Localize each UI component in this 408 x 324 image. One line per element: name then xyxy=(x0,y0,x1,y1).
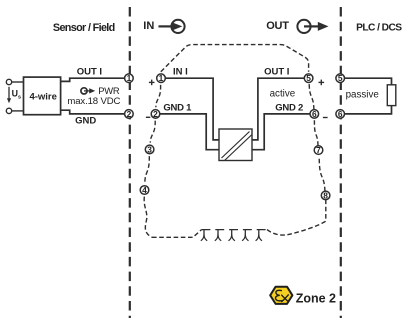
4-wire transmitter box xyxy=(24,77,61,115)
enclosure dashed bottom edge xyxy=(152,230,202,238)
svg-text:IN I: IN I xyxy=(173,66,188,77)
wire OUT I: isolator to terminal 5 inner xyxy=(252,78,305,140)
DIN rail bus contact row bar xyxy=(202,229,268,231)
enclosure dashed link terminal 7 to 6 xyxy=(314,118,318,146)
Ex hazardous area symbol xyxy=(270,287,292,304)
wire GND from 4-wire box to terminal 2 (with jog) xyxy=(61,110,126,114)
OUT port symbol xyxy=(266,20,328,33)
device enclosure dashed outline top xyxy=(161,45,309,72)
svg-text:4-wire: 4-wire xyxy=(29,92,56,103)
svg-text:1: 1 xyxy=(159,73,164,83)
polarity + at terminal 1 inner xyxy=(149,80,155,86)
svg-text:passive: passive xyxy=(346,89,380,100)
source terminal top xyxy=(6,79,11,84)
DIN rail bus contact 5 xyxy=(256,230,262,241)
terminal 5 outer xyxy=(336,73,345,83)
enclosure dashed link terminal 1 to 2 xyxy=(156,85,161,107)
enclosure dashed link terminal 6 to 5 xyxy=(309,83,314,110)
polarity - at terminal 6 inner xyxy=(323,117,328,119)
terminal 1 outer xyxy=(125,73,134,83)
enclosure dashed link terminal 8 to 7 xyxy=(319,156,325,191)
wire passive load: terminal 5 outer to resistor to terminal 6 outer xyxy=(344,78,391,114)
terminal 1 inner xyxy=(157,73,166,83)
terminal 8 xyxy=(321,190,330,200)
IN port symbol xyxy=(143,20,184,33)
resistor passive load xyxy=(387,85,396,106)
svg-text:U: U xyxy=(12,88,18,98)
svg-text:OUT I: OUT I xyxy=(77,66,102,77)
wire source bottom to 4-wire box xyxy=(12,110,24,112)
wire OUT I from 4-wire box to terminal 1 (with jog) xyxy=(61,78,126,81)
polarity - at terminal 2 inner xyxy=(146,116,150,118)
svg-text:Zone 2: Zone 2 xyxy=(296,291,336,305)
svg-text:OUT I: OUT I xyxy=(264,66,289,77)
svg-text:1: 1 xyxy=(127,73,132,83)
svg-text:2: 2 xyxy=(153,109,158,119)
svg-text:GND 2: GND 2 xyxy=(275,103,303,114)
terminal 4 xyxy=(140,185,149,195)
svg-text:max.18 VDC: max.18 VDC xyxy=(67,96,120,107)
svg-text:Sensor / Field: Sensor / Field xyxy=(53,22,115,34)
svg-text:6: 6 xyxy=(338,109,343,119)
terminal 6 outer xyxy=(336,109,345,119)
svg-text:PWR: PWR xyxy=(98,85,120,96)
svg-text:4: 4 xyxy=(142,185,147,195)
wire IN I: terminal 1 inner to isolator xyxy=(165,78,219,140)
DIN rail bus contact 4 xyxy=(242,230,248,241)
zone separator dashed line right (OUT | PLC/DCS) xyxy=(340,7,342,318)
svg-text:active: active xyxy=(270,89,296,100)
wire GND 1: terminal 2 inner to isolator xyxy=(160,114,219,150)
svg-text:PLC / DCS: PLC / DCS xyxy=(356,22,402,33)
enclosure dashed link terminal 3 to 4 xyxy=(145,156,150,183)
terminal 5 inner xyxy=(304,73,313,83)
svg-text:GND 1: GND 1 xyxy=(163,103,192,114)
DIN rail bus contact 3 xyxy=(229,230,235,241)
terminal 2 outer xyxy=(125,109,134,119)
DIN rail bus contact 1 xyxy=(201,230,207,241)
wire source top to 4-wire box xyxy=(12,81,24,83)
terminal 2 inner xyxy=(151,109,160,119)
PWR supply symbol xyxy=(81,88,95,94)
voltage source arrow Us xyxy=(7,87,21,104)
svg-text:5: 5 xyxy=(338,73,343,83)
svg-text:OUT: OUT xyxy=(266,20,289,32)
svg-text:2: 2 xyxy=(127,109,132,119)
source terminal bottom xyxy=(6,108,11,113)
svg-text:8: 8 xyxy=(323,190,328,200)
svg-text:GND: GND xyxy=(75,115,96,126)
isolator U1 (isolation amplifier) xyxy=(219,129,252,161)
svg-text:6: 6 xyxy=(312,109,317,119)
polarity + at terminal 5 inner xyxy=(319,80,325,86)
terminal 7 xyxy=(314,145,323,155)
svg-text:3: 3 xyxy=(147,144,152,154)
terminal 3 xyxy=(145,144,154,154)
enclosure dashed link terminal 4 to bottom edge xyxy=(144,197,152,238)
svg-text:IN: IN xyxy=(143,20,154,32)
svg-text:5: 5 xyxy=(306,73,311,83)
DIN rail bus contact 2 xyxy=(215,230,221,241)
enclosure dashed link terminal 2 to 3 xyxy=(150,121,155,143)
svg-text:s: s xyxy=(18,94,21,100)
terminal 6 inner xyxy=(310,109,319,119)
wire GND 2: isolator to terminal 6 inner xyxy=(252,114,310,150)
zone separator dashed line left (Sensor/Field | IN) xyxy=(129,7,131,318)
svg-text:7: 7 xyxy=(316,145,321,155)
enclosure dashed bottom right curve xyxy=(267,200,326,235)
